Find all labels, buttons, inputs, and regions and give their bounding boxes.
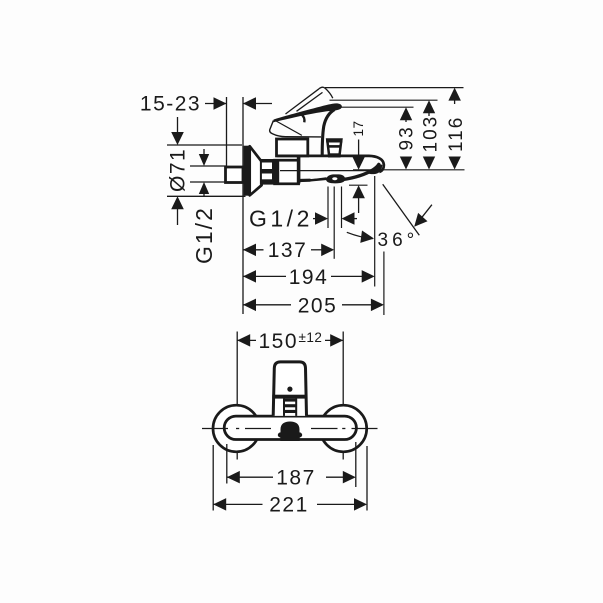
- ext line 103 top: [330, 99, 438, 101]
- spout angle leader arc: [347, 232, 373, 238]
- ext line 116 top: [325, 87, 464, 89]
- dim 221 left arrow: [213, 498, 226, 511]
- svg-text:G1/2: G1/2: [249, 206, 313, 232]
- escutcheon cone: [250, 146, 262, 195]
- dim 221 right ext line: [366, 446, 368, 511]
- crosshair left: [202, 428, 228, 430]
- svg-text:17: 17: [351, 120, 366, 136]
- thread dim top arrow: [203, 149, 205, 161]
- dim 150 right arrow: [325, 339, 343, 341]
- lever front lip: [302, 115, 305, 123]
- right escutcheon: [320, 405, 367, 452]
- spout end ext line: [383, 252, 385, 316]
- body top edge and spout nose: [277, 156, 384, 172]
- dim 15-23 left arrow: [205, 103, 227, 105]
- svg-text:150: 150: [259, 330, 299, 353]
- cartridge housing: [277, 139, 308, 156]
- svg-text:G1/2: G1/2: [191, 206, 217, 264]
- svg-text:103: 103: [421, 115, 442, 153]
- dim 150 left arrow: [237, 334, 250, 347]
- svg-text:194: 194: [289, 266, 329, 289]
- thread dim top line: [190, 165, 227, 167]
- thread dim bottom line: [190, 181, 227, 183]
- dim 116 bottom arrow: [454, 157, 456, 165]
- svg-text:221: 221: [269, 494, 309, 517]
- body-nut joint: [297, 157, 301, 184]
- dim O71 bottom arrow: [171, 196, 184, 209]
- ext line outlet bottom: [349, 184, 368, 186]
- s-union hex block: [260, 159, 275, 185]
- svg-text:36°: 36°: [378, 230, 419, 251]
- dim 187 left ext line: [226, 444, 228, 484]
- lever raised outline: [286, 89, 320, 114]
- dim 17 bottom arrow: [352, 185, 365, 198]
- dim 93 bottom arrow: [405, 157, 407, 165]
- svg-text:187: 187: [276, 467, 316, 490]
- left escutcheon: [213, 405, 260, 452]
- dim O71 top extent line: [167, 144, 242, 146]
- body bottom edge: [299, 178, 327, 180]
- spout angle arrow: [417, 205, 432, 225]
- svg-text:205: 205: [298, 295, 338, 318]
- svg-text:93: 93: [397, 125, 418, 150]
- front aerator: [278, 422, 302, 442]
- dim 103 top arrow: [423, 100, 435, 113]
- wall line outer (max depth): [242, 97, 244, 314]
- thread dim bottom arrow: [199, 182, 209, 194]
- outlet dim right arrow: [342, 212, 355, 225]
- lever blade: [274, 103, 342, 122]
- spout tip ext line: [374, 176, 376, 287]
- dim 205 right arrow: [342, 304, 374, 306]
- dim 15-23 right arrow: [243, 97, 256, 110]
- outlet ext line left: [327, 187, 329, 229]
- svg-text:±12: ±12: [299, 330, 323, 345]
- lever underside outline: [270, 121, 321, 137]
- dim 17 top arrow: [358, 140, 360, 158]
- dim 221 left ext line: [212, 445, 214, 511]
- dim 187 right arrow: [326, 476, 343, 478]
- dim 187 right ext line: [355, 442, 357, 487]
- svg-text:137: 137: [268, 239, 308, 262]
- svg-text:15-23: 15-23: [140, 93, 201, 116]
- wall pipe stub: [226, 167, 244, 183]
- front handle outline: [273, 362, 306, 416]
- front center line right: [342, 332, 344, 460]
- front handle grip: [283, 399, 285, 416]
- front center line left: [236, 332, 238, 460]
- dim 137 left arrow: [243, 244, 256, 257]
- lever neck: [322, 110, 334, 156]
- dim 187 left arrow: [227, 471, 240, 484]
- escutcheon flange plate: [244, 146, 250, 196]
- front handle dot: [287, 387, 292, 392]
- dim 103 bottom arrow: [428, 157, 430, 165]
- outlet dim left arrow: [313, 218, 320, 220]
- waterway line: [280, 170, 375, 172]
- dim 116 top arrow: [448, 88, 461, 101]
- dim 194 right arrow: [331, 275, 365, 277]
- front body capsule: [224, 416, 356, 439]
- dim 221 right arrow: [317, 503, 354, 505]
- dim 93 top arrow: [400, 107, 412, 120]
- svg-text:Ø71: Ø71: [167, 148, 190, 192]
- spout underside curve: [343, 164, 379, 179]
- ext line 93 top: [341, 106, 414, 108]
- dim O71 bottom extent line: [167, 195, 246, 197]
- dim 205 left arrow: [243, 299, 256, 312]
- wall line inner (min depth): [226, 97, 228, 183]
- ext line spout base: [353, 169, 465, 171]
- dim 194 left arrow: [243, 270, 256, 283]
- dim O71 top arrow: [177, 117, 179, 140]
- crosshair right: [311, 428, 338, 430]
- outlet center ext line: [333, 187, 335, 259]
- union nut: [275, 160, 299, 184]
- dim 137 right arrow: [311, 249, 325, 251]
- diverter knob: [327, 140, 341, 157]
- svg-text:116: 116: [446, 116, 467, 152]
- front handle band: [272, 395, 307, 399]
- aerator outlet: [326, 174, 345, 183]
- spout angle line: [383, 184, 420, 235]
- outlet ext line right: [341, 187, 343, 229]
